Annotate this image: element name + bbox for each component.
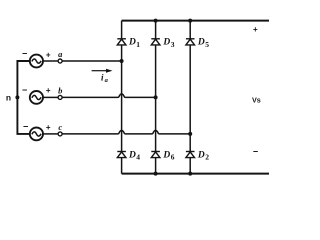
svg-text:a: a — [105, 77, 109, 84]
svg-text:2: 2 — [205, 153, 209, 162]
junction: phase c / leg 3 — [188, 132, 192, 136]
svg-text:c: c — [58, 122, 62, 132]
svg-text:−: − — [22, 49, 27, 59]
svg-text:D: D — [197, 150, 205, 160]
junction: bottom bus / leg 2 — [154, 172, 158, 176]
junction: phase b / leg 2 — [154, 95, 158, 99]
diode D2 — [186, 152, 195, 158]
svg-text:6: 6 — [171, 153, 175, 162]
node c terminal — [58, 132, 62, 136]
junction: phase a / leg 1 — [120, 59, 124, 63]
diode D3 — [151, 39, 160, 45]
node b terminal — [58, 95, 62, 99]
svg-text:5: 5 — [205, 40, 209, 49]
svg-text:D: D — [128, 38, 136, 48]
svg-text:1: 1 — [136, 40, 140, 49]
wire: bridge leg 1 vertical (D1/D4) — [121, 21, 123, 174]
svg-text:3: 3 — [171, 40, 175, 49]
svg-text:4: 4 — [136, 153, 140, 162]
diode D5 — [186, 39, 195, 45]
diode D6 — [151, 152, 160, 158]
wire: left neutral rail n — [17, 61, 30, 134]
svg-text:+: + — [46, 86, 51, 95]
svg-text:D: D — [197, 38, 205, 48]
svg-text:i: i — [101, 72, 104, 82]
svg-text:−: − — [22, 85, 27, 95]
wire: top DC bus — [122, 20, 269, 22]
svg-text:D: D — [162, 150, 170, 160]
svg-text:a: a — [58, 49, 63, 59]
wire: bridge leg 3 vertical (D5/D2) — [189, 21, 191, 174]
svg-text:D: D — [128, 150, 136, 160]
svg-text:+: + — [253, 25, 258, 34]
current arrow i_a — [92, 69, 113, 73]
wire: source a to node a — [43, 60, 58, 62]
svg-text:Vs: Vs — [252, 95, 261, 104]
wire: bottom DC bus — [122, 173, 269, 175]
svg-text:n: n — [6, 92, 11, 102]
svg-text:D: D — [162, 38, 170, 48]
node n — [15, 95, 19, 99]
node a terminal — [58, 59, 62, 63]
wire: phase b to bridge, hop over leg 1 — [62, 94, 155, 98]
wire: phase a to bridge — [62, 60, 121, 62]
junction: bottom bus / leg 3 — [188, 172, 192, 176]
svg-text:−: − — [253, 146, 258, 156]
diode D1 — [117, 39, 126, 45]
diode D4 — [117, 152, 126, 158]
junction: top bus / leg 2 — [154, 19, 158, 23]
source Vc (phase c AC source) — [30, 127, 43, 140]
wire: phase c to bridge, hops over legs 1 and 2 — [62, 130, 190, 134]
svg-text:b: b — [58, 85, 62, 95]
source Vb (phase b AC source) — [30, 91, 43, 104]
svg-text:+: + — [46, 123, 51, 132]
svg-text:+: + — [46, 50, 51, 59]
wire: source b to node b — [43, 96, 58, 98]
svg-text:−: − — [23, 122, 28, 132]
junction: top bus / leg 3 — [188, 19, 192, 23]
wire: bridge leg 2 vertical (D3/D6) — [155, 21, 157, 174]
wire: source c to node c — [43, 133, 58, 135]
source Va (phase a AC source) — [30, 55, 43, 68]
